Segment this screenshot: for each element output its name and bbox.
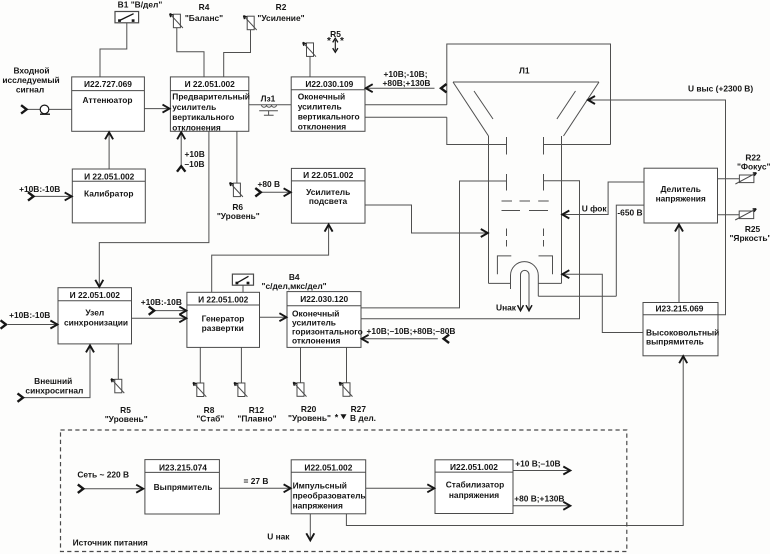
svg-text:Аттенюатор: Аттенюатор [83, 95, 133, 105]
svg-text:отклонения: отклонения [292, 335, 341, 345]
svg-text:-650 В: -650 В [617, 208, 642, 218]
svg-text:усилитель: усилитель [172, 102, 216, 112]
svg-text:+10В:-10В: +10В:-10В [9, 310, 50, 320]
svg-text:отклонения: отклонения [298, 122, 347, 132]
svg-text:*: * [335, 412, 339, 422]
svg-text:"с/дел,мкс/дел": "с/дел,мкс/дел" [262, 281, 327, 291]
svg-text:+10В: +10В [185, 149, 205, 159]
svg-text:R4: R4 [199, 2, 210, 12]
svg-text:развертки: развертки [202, 323, 244, 333]
svg-text:+10В;–10В;+80В;–80В: +10В;–10В;+80В;–80В [367, 326, 456, 336]
svg-text:Предварительный: Предварительный [172, 92, 250, 102]
svg-text:И22.051.002: И22.051.002 [304, 463, 352, 473]
svg-text:напряжения: напряжения [656, 193, 706, 203]
svg-text:Импульсный: Импульсный [293, 480, 347, 490]
svg-text:И23.215.074: И23.215.074 [159, 463, 207, 473]
svg-text:подсвета: подсвета [309, 196, 348, 206]
svg-text:синхросигнал: синхросигнал [25, 385, 83, 395]
svg-text:+10В:-10В: +10В:-10В [141, 297, 182, 307]
svg-text:+80 В;+130В: +80 В;+130В [514, 494, 564, 504]
svg-text:+10 В;–10В: +10 В;–10В [515, 459, 560, 469]
svg-text:напряжения: напряжения [293, 501, 343, 511]
svg-text:выпрямитель: выпрямитель [646, 337, 704, 347]
svg-text:R5: R5 [330, 29, 341, 39]
svg-text:И 22.051.002: И 22.051.002 [303, 170, 354, 180]
svg-text:Сеть ~ 220 В: Сеть ~ 220 В [77, 470, 129, 480]
svg-text:Узел: Узел [85, 308, 104, 318]
svg-text:Uнак: Uнак [496, 303, 517, 313]
svg-text:"Уровень": "Уровень" [217, 211, 260, 221]
svg-text:И22.030.120: И22.030.120 [300, 294, 348, 304]
svg-text:+80В;+130В: +80В;+130В [383, 78, 431, 88]
svg-text:+80 В: +80 В [258, 179, 281, 189]
svg-text:U выс (+2300 В): U выс (+2300 В) [688, 84, 753, 94]
svg-text:исследуемый: исследуемый [2, 75, 59, 85]
svg-text:Л1: Л1 [519, 66, 530, 76]
svg-text:Источник питания: Источник питания [73, 538, 148, 548]
svg-text:Выпрямитель: Выпрямитель [154, 482, 213, 492]
svg-text:Генератор: Генератор [202, 313, 245, 323]
svg-text:Стабилизатор: Стабилизатор [446, 480, 505, 490]
svg-text:= 27 В: = 27 В [244, 476, 269, 486]
svg-text:Входной: Входной [13, 66, 49, 76]
svg-text:"Усиление": "Усиление" [257, 13, 304, 23]
svg-text:И 22.051.002: И 22.051.002 [84, 171, 135, 181]
svg-text:В дел.: В дел. [350, 413, 376, 423]
svg-text:И23.215.069: И23.215.069 [656, 304, 704, 314]
svg-text:U нак: U нак [267, 532, 290, 542]
svg-text:преобразователь: преобразователь [293, 491, 366, 501]
svg-text:напряжения: напряжения [449, 490, 499, 500]
svg-text:отклонения: отклонения [172, 123, 221, 133]
svg-text:"Яркость": "Яркость" [729, 233, 770, 243]
svg-text:вертикального: вертикального [172, 112, 234, 122]
svg-text:"Фокус": "Фокус" [737, 161, 770, 171]
svg-text:Калибратор: Калибратор [84, 189, 134, 199]
svg-text:–10В: –10В [185, 159, 205, 169]
svg-text:И22.727.069: И22.727.069 [84, 79, 132, 89]
svg-text:сигнал: сигнал [16, 85, 44, 95]
svg-text:синхронизации: синхронизации [64, 318, 128, 328]
svg-text:+10В:-10В: +10В:-10В [19, 184, 60, 194]
svg-text:И 22.051.002: И 22.051.002 [70, 290, 121, 300]
svg-text:И 22.051.002: И 22.051.002 [185, 79, 236, 89]
svg-text:"Стаб": "Стаб" [196, 413, 224, 423]
svg-text:"Уровень": "Уровень" [288, 413, 331, 423]
svg-text:И 22.051.002: И 22.051.002 [198, 295, 249, 305]
svg-text:И22.030.109: И22.030.109 [305, 79, 353, 89]
svg-text:"Плавно": "Плавно" [237, 413, 276, 423]
svg-text:Лз1: Лз1 [261, 94, 276, 104]
svg-text:вертикального: вертикального [298, 112, 360, 122]
svg-text:"Уровень": "Уровень" [105, 414, 148, 424]
svg-text:усилитель: усилитель [298, 102, 342, 112]
svg-text:R2: R2 [276, 2, 287, 12]
svg-text:В1 "В/дел": В1 "В/дел" [118, 0, 163, 10]
svg-text:Оконечный: Оконечный [298, 91, 345, 101]
svg-text:"Баланс": "Баланс" [185, 13, 223, 23]
svg-text:U фок: U фок [582, 203, 608, 213]
svg-text:И22.051.002: И22.051.002 [450, 462, 498, 472]
